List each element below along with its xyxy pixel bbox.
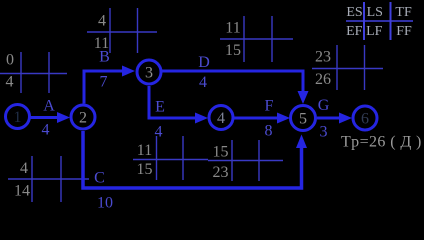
svg-text:FF: FF [396,24,412,39]
svg-text:4: 4 [199,74,207,91]
svg-text:2: 2 [79,110,87,127]
svg-text:F: F [265,98,274,115]
svg-text:4: 4 [217,110,225,127]
svg-text:14: 14 [14,182,30,199]
svg-text:11: 11 [137,142,152,159]
svg-text:15: 15 [225,42,241,59]
svg-text:EF: EF [346,24,363,39]
svg-text:E: E [155,99,165,116]
svg-text:3: 3 [320,124,328,141]
svg-text:4: 4 [155,124,163,141]
svg-text:4: 4 [98,12,106,29]
svg-text:23: 23 [315,48,331,65]
svg-text:7: 7 [100,74,108,91]
svg-text:11: 11 [225,19,240,36]
svg-text:ES: ES [346,5,362,20]
svg-text:4: 4 [20,160,28,177]
svg-text:G: G [318,97,330,114]
svg-text:D: D [198,54,210,71]
svg-text:1: 1 [14,109,22,126]
svg-text:TF: TF [395,5,412,20]
svg-text:26: 26 [315,71,331,88]
svg-text:15: 15 [213,143,229,160]
svg-text:15: 15 [137,161,153,178]
svg-text:5: 5 [299,111,307,128]
svg-text:B: B [99,49,110,66]
svg-text:10: 10 [97,195,113,212]
svg-text:6: 6 [361,111,369,128]
svg-text:LS: LS [367,5,383,20]
svg-text:3: 3 [145,65,153,82]
svg-text:4: 4 [6,73,14,90]
svg-text:8: 8 [265,123,273,140]
svg-text:LF: LF [366,24,383,39]
svg-text:23: 23 [213,164,229,181]
svg-text:A: A [43,98,55,115]
svg-text:C: C [94,170,105,187]
svg-text:0: 0 [6,51,14,68]
svg-text:4: 4 [42,122,50,139]
svg-text:Tp=26 ( Д ): Tp=26 ( Д ) [341,134,422,151]
